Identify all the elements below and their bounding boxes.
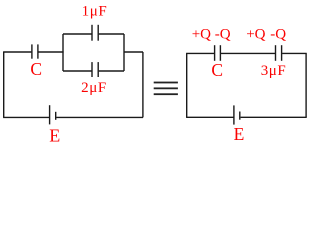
- wire: C to parallel box: [38, 51, 63, 53]
- wire: parallel box bottom rail right: [99, 70, 124, 72]
- wire: left circuit bottom right segment: [56, 116, 143, 118]
- svg-text:1μF: 1μF: [82, 4, 108, 20]
- battery B1 (E) short plate: [55, 112, 57, 120]
- svg-text:C: C: [30, 59, 42, 79]
- svg-text:C: C: [211, 60, 223, 80]
- wire: left circuit top-left segment: [3, 51, 31, 53]
- wire: right circuit right vertical: [305, 53, 307, 117]
- capacitor C3 (2uF) left plate: [91, 62, 93, 77]
- wire: left circuit right vertical: [142, 52, 144, 117]
- wire: right circuit top segment 1: [186, 52, 214, 54]
- capacitor C2 (1uF) right plate: [97, 25, 99, 41]
- svg-text:E: E: [49, 125, 60, 145]
- wire: right circuit bottom right segment: [241, 116, 307, 118]
- wire: right circuit bottom left segment: [186, 116, 233, 118]
- svg-text:2μF: 2μF: [81, 80, 107, 96]
- battery B2 (E) short plate: [239, 112, 241, 120]
- wire: right circuit top segment 3: [282, 52, 307, 54]
- wire: parallel box bottom rail left: [63, 70, 92, 72]
- wire: parallel box top rail right: [99, 33, 124, 35]
- capacitor C5 (3uF) left plate: [275, 45, 277, 61]
- wire: parallel box top rail left: [63, 33, 92, 35]
- capacitor C5 (3uF) right plate: [281, 45, 283, 61]
- svg-text:+Q -Q: +Q -Q: [192, 26, 231, 42]
- capacitor C1 (C) right plate: [37, 44, 39, 58]
- battery B1 (E) long plate: [49, 105, 51, 124]
- capacitor C1 (C) left plate: [31, 44, 33, 58]
- wire: right circuit left vertical: [186, 53, 188, 117]
- capacitor C2 (1uF) left plate: [91, 25, 93, 41]
- svg-text:E: E: [234, 124, 245, 144]
- battery B2 (E) long plate: [233, 105, 235, 124]
- capacitor C4 (C) left plate: [214, 45, 216, 61]
- wire: parallel box left vertical: [62, 34, 64, 71]
- wire: left circuit left vertical: [3, 52, 5, 117]
- svg-text:+Q -Q: +Q -Q: [246, 26, 286, 42]
- wire: box output to right: [124, 51, 143, 53]
- wire: right circuit top segment 2: [221, 52, 275, 54]
- capacitor C3 (2uF) right plate: [97, 62, 99, 77]
- equivalence sign: [154, 82, 178, 96]
- capacitor C4 (C) right plate: [219, 45, 221, 61]
- wire: left circuit bottom left segment: [3, 116, 49, 118]
- svg-text:3μF: 3μF: [261, 63, 287, 79]
- wire: parallel box right vertical: [123, 34, 125, 71]
